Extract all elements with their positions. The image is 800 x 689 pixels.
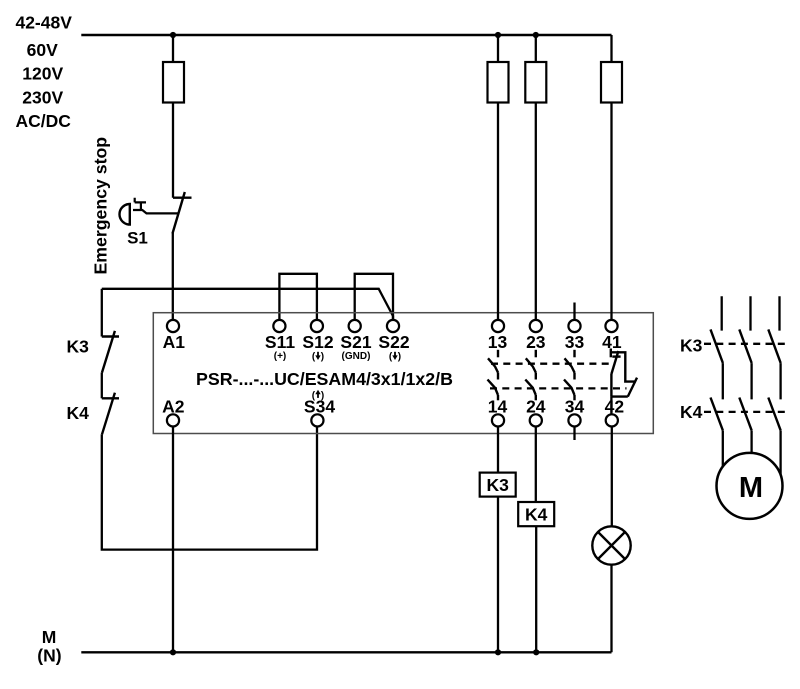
contact 41-42 (NC pair)	[611, 349, 637, 397]
terminal S12	[311, 320, 323, 332]
wire: phase stubs to contactor K3	[722, 296, 780, 330]
actuator plunger T	[135, 198, 146, 211]
svg-text:S12: S12	[302, 332, 333, 352]
dashed linkage row 1	[491, 363, 610, 365]
coil K3	[480, 473, 516, 497]
pin label (up arrow)	[312, 390, 325, 402]
coil K4	[518, 502, 554, 526]
terminal 13	[492, 320, 504, 332]
svg-text:Emergency stop: Emergency stop	[91, 137, 111, 275]
motor M1	[717, 453, 783, 519]
wire: feedback loop horizontal to S22	[102, 289, 393, 320]
wire: 42 to lamp	[611, 427, 613, 527]
terminal 41	[605, 320, 617, 332]
wire: top supply rail	[81, 34, 611, 37]
voltage labels 42-48V 60V 120V 230V AC/DC	[15, 13, 72, 132]
wire: coil K3 to neutral rail	[497, 497, 499, 653]
wire: stub below terminal 34	[573, 427, 575, 441]
wire: rail end to fuse F4	[610, 35, 612, 62]
terminal S11	[273, 320, 285, 332]
svg-text:PSR-...-...UC/ESAM4/3x1/1x2/B: PSR-...-...UC/ESAM4/3x1/1x2/B	[196, 369, 453, 389]
svg-text:60V: 60V	[27, 40, 58, 60]
svg-text:(+): (+)	[274, 351, 287, 362]
terminal S21	[349, 320, 361, 332]
wire: stub above terminal 33	[573, 303, 575, 320]
contactor K4 contacts (3x NO)	[711, 398, 781, 431]
svg-text:K3: K3	[67, 337, 90, 357]
fuse F1	[163, 62, 184, 103]
svg-text:A1: A1	[163, 332, 186, 352]
terminal 33	[568, 320, 580, 332]
contact 33-34 (NO pair)	[564, 350, 575, 401]
svg-text:S1: S1	[127, 229, 148, 248]
svg-text:M: M	[42, 627, 57, 647]
pin label (down arrow)	[389, 352, 401, 363]
wire: feedback corner down to K3 contact	[101, 289, 103, 337]
wire: rail to fuse F1	[172, 35, 174, 62]
node: junction dot at A1 branch	[170, 32, 176, 38]
svg-text:M: M	[739, 472, 763, 504]
contact K4 feedback (NC)	[102, 393, 119, 435]
relay box PSR	[153, 313, 653, 434]
wire: fuse F3 to terminal 23	[535, 103, 537, 320]
wire: rail to fuse F3	[535, 35, 537, 62]
contact 13-14 (NO pair)	[488, 350, 499, 401]
svg-text:23: 23	[526, 332, 546, 352]
wire: fuse F2 to terminal 13	[497, 103, 499, 320]
terminal 42	[606, 414, 618, 426]
wire: K4 down and across to S34	[102, 427, 317, 550]
svg-text:K3: K3	[487, 475, 510, 495]
contactor K3 contacts (3x NO)	[711, 329, 781, 363]
wire: fuse F4 to terminal 41	[610, 103, 612, 320]
terminal A1	[167, 320, 179, 332]
svg-text:S21: S21	[340, 332, 371, 352]
wire: neutral rail	[81, 651, 611, 653]
terminal A2	[167, 414, 179, 426]
terminal S34	[311, 414, 323, 426]
emergency stop contact S1 (NC)	[173, 192, 192, 234]
svg-text:(N): (N)	[37, 646, 61, 666]
indicator lamp	[592, 526, 630, 564]
node: junction dot A2 to neutral	[170, 649, 176, 655]
wire: 24 to coil K4	[535, 427, 537, 503]
svg-text:120V: 120V	[22, 64, 63, 84]
pushbutton actuator of S1 (mushroom head)	[120, 204, 130, 225]
svg-text:S22: S22	[378, 332, 409, 352]
wire: K3 to K4 contact	[101, 373, 103, 399]
fuse F3	[525, 62, 546, 103]
fuse F2	[488, 62, 509, 103]
svg-text:42: 42	[605, 397, 625, 417]
wire: S1 to A1	[172, 233, 174, 320]
svg-text:(: (	[389, 352, 393, 363]
wire: K3 to K4 contactor	[723, 363, 781, 399]
node: junction dot at 23 branch	[533, 32, 539, 38]
terminal 14	[492, 414, 504, 426]
wire: A2 down to neutral rail	[172, 427, 174, 653]
svg-text:(GND): (GND)	[342, 351, 371, 362]
contact 23-24 (NO pair)	[525, 350, 536, 401]
wire: contactor to motor	[723, 431, 781, 476]
actuator link to contact	[133, 210, 179, 213]
wire: fuse F1 to S1	[172, 103, 174, 198]
svg-text:33: 33	[565, 332, 585, 352]
wire: bridge S11-S12	[279, 274, 317, 320]
wire: rail to fuse F2	[497, 35, 499, 62]
svg-text:34: 34	[565, 397, 585, 417]
label M (N)	[37, 627, 61, 666]
terminal 23	[530, 320, 542, 332]
svg-text:41: 41	[602, 332, 622, 352]
dashed linkage row 2	[490, 387, 627, 389]
svg-text:24: 24	[526, 397, 546, 417]
svg-text:S34: S34	[304, 397, 335, 417]
svg-text:(: (	[312, 352, 316, 363]
svg-text:230V: 230V	[22, 87, 63, 107]
pin label (down arrow)	[312, 352, 324, 363]
fuse F4	[601, 62, 622, 103]
wire: coil K4 to neutral rail	[535, 526, 537, 652]
wire: 42 contact to terminal 42	[610, 397, 612, 415]
node: junction dot K3 to neutral	[495, 649, 501, 655]
svg-text:13: 13	[488, 332, 508, 352]
node: junction dot at 13 branch	[495, 32, 501, 38]
svg-text:K4: K4	[680, 402, 703, 422]
node: junction dot K4 to neutral	[533, 649, 539, 655]
dashed linkage K3	[704, 343, 786, 345]
svg-text:A2: A2	[162, 397, 185, 417]
svg-text:S11: S11	[265, 332, 295, 352]
terminal 34	[568, 414, 580, 426]
wire: lamp to neutral rail	[610, 565, 612, 653]
svg-text:42-48V: 42-48V	[15, 13, 72, 33]
wire: bridge S21-S22	[355, 274, 393, 320]
svg-text:): )	[398, 352, 401, 363]
svg-text:K4: K4	[67, 403, 90, 423]
terminal S22	[387, 320, 399, 332]
dashed linkage K4	[704, 411, 786, 413]
contact K3 feedback (NC)	[102, 331, 119, 373]
svg-text:14: 14	[488, 397, 508, 417]
terminal 24	[530, 414, 542, 426]
svg-text:K4: K4	[525, 505, 548, 525]
wire: 14 to coil K3	[497, 427, 499, 473]
svg-text:AC/DC: AC/DC	[15, 111, 71, 131]
svg-text:): )	[321, 352, 324, 363]
svg-text:K3: K3	[680, 336, 703, 356]
